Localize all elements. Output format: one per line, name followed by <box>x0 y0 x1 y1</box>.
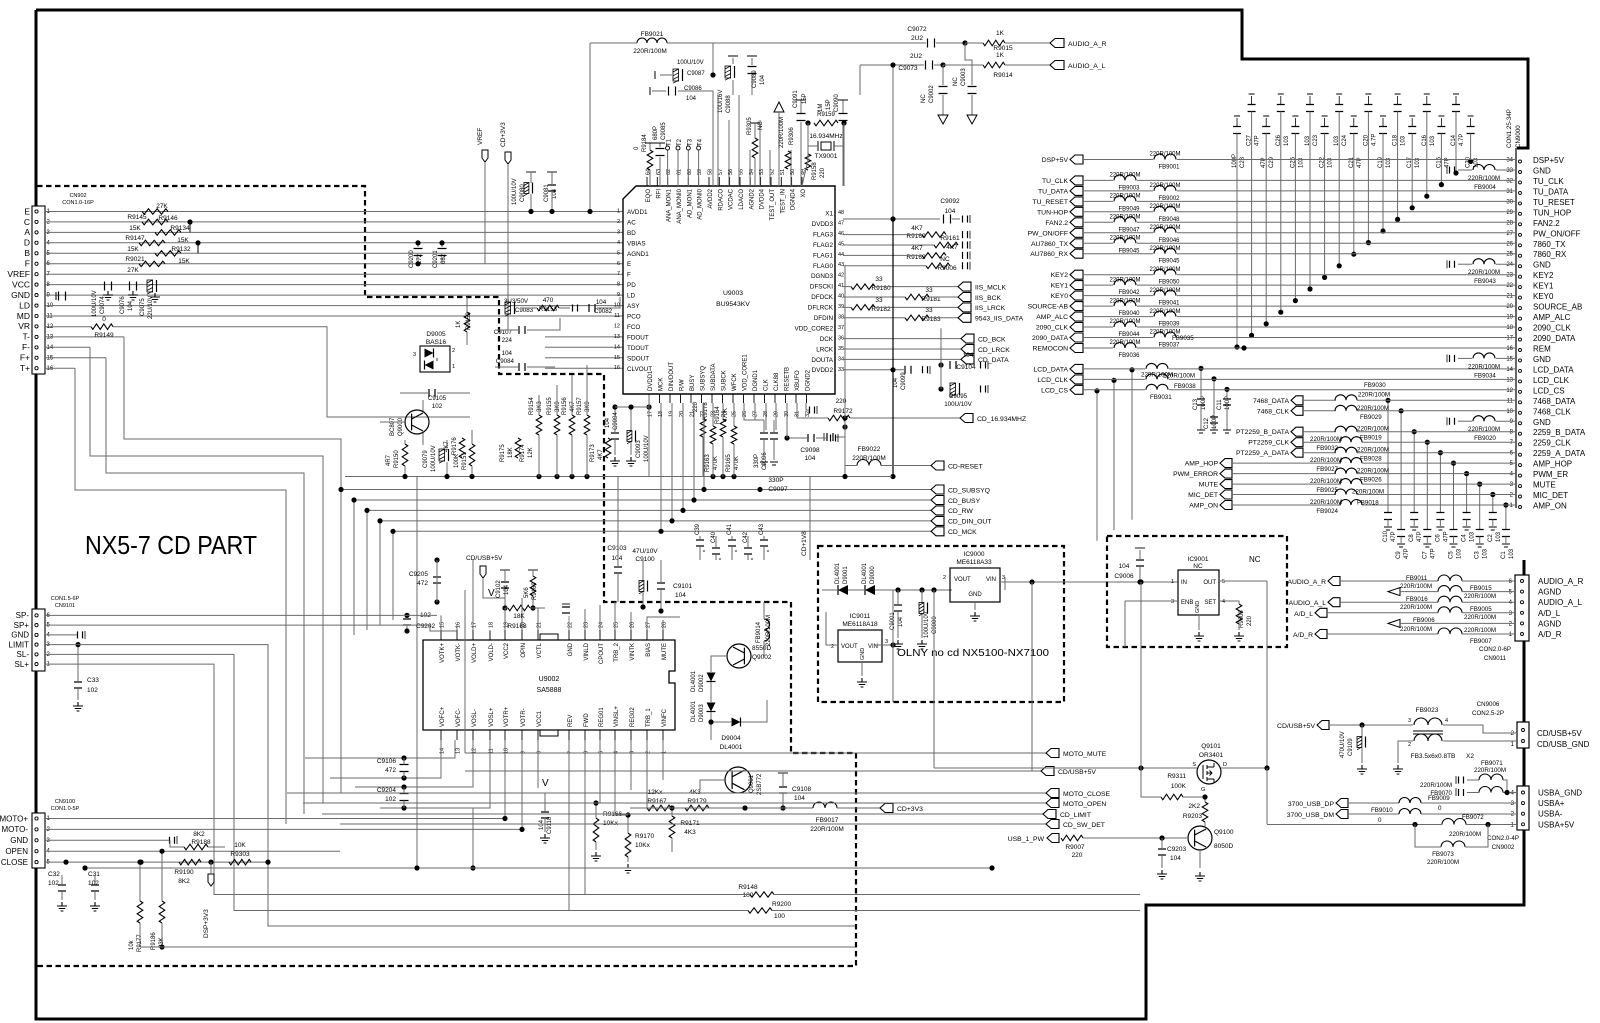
U9002 pin 19 VCC2 <box>504 630 506 640</box>
svg-text:FB9071: FB9071 <box>1481 760 1503 767</box>
svg-text:220R/100M: 220R/100M <box>810 826 844 833</box>
svg-text:C9089: C9089 <box>752 70 758 88</box>
svg-text:220R/100M: 220R/100M <box>633 48 667 55</box>
capacitor C18 <box>1397 96 1399 105</box>
U9003 pin 53 DVDD4 <box>760 177 762 186</box>
capacitor C30 <box>1470 118 1472 127</box>
svg-text:6: 6 <box>584 751 590 754</box>
net flag MOTO_CLOSE <box>287 792 1046 794</box>
long ground rail below U9002 <box>85 867 992 869</box>
svg-text:C43: C43 <box>759 523 765 535</box>
ground triangle for C9003 <box>967 115 977 124</box>
wire SL+ staircase <box>45 664 750 894</box>
svg-text:TX9001: TX9001 <box>815 153 838 160</box>
svg-text:100: 100 <box>774 913 785 920</box>
svg-text:SOURCE_AB: SOURCE_AB <box>1533 303 1582 312</box>
svg-text:R9157: R9157 <box>577 397 583 415</box>
svg-text:472: 472 <box>385 767 396 774</box>
svg-text:25: 25 <box>1506 252 1513 258</box>
svg-text:CD_BUSY: CD_BUSY <box>948 498 981 505</box>
svg-text:220R/100M: 220R/100M <box>1109 215 1140 221</box>
svg-text:GND: GND <box>1195 601 1201 613</box>
svg-text:14: 14 <box>1506 367 1513 373</box>
net flag IIS_MCLK <box>958 282 971 291</box>
svg-text:V: V <box>542 778 549 789</box>
svg-text:DL4001: DL4001 <box>862 562 868 584</box>
svg-text:ASY: ASY <box>627 303 640 310</box>
svg-text:R9303: R9303 <box>230 851 250 858</box>
svg-text:103: 103 <box>1470 531 1476 542</box>
svg-text:D: D <box>1223 762 1227 768</box>
svg-text:VOLD+: VOLD+ <box>472 643 478 663</box>
U9003 pin 59 AD_MONI0 <box>698 177 700 186</box>
CN902 pin 3 A <box>35 231 38 234</box>
svg-text:MD: MD <box>17 311 30 321</box>
U9002 pin 6 FWD <box>584 730 586 740</box>
ferrite FB9017 220R/100M <box>813 802 837 808</box>
svg-text:CLK: CLK <box>764 379 770 391</box>
U9003 pin 23 SUBDATA <box>711 394 713 403</box>
wire CLOSE row <box>45 861 268 863</box>
U9003 pin 22 SUBSYQ <box>701 394 703 403</box>
svg-text:47P: 47P <box>1430 548 1436 559</box>
svg-text:R9190: R9190 <box>174 869 194 876</box>
svg-text:R9007: R9007 <box>1065 844 1085 851</box>
svg-text:CON1.25-34P: CON1.25-34P <box>1506 109 1513 148</box>
resistor R9160 4K7 <box>922 232 946 238</box>
svg-text:MOTO_OPEN: MOTO_OPEN <box>1063 801 1106 808</box>
svg-text:FB9007: FB9007 <box>1470 638 1492 645</box>
svg-text:TUN_HOP: TUN_HOP <box>1533 208 1571 217</box>
svg-text:C7: C7 <box>1422 551 1428 559</box>
wire SP+ row jog <box>45 625 457 631</box>
ferrite FB9048 220R/100M <box>1154 206 1176 211</box>
svg-text:IIS_LRCK: IIS_LRCK <box>975 305 1006 312</box>
svg-text:103: 103 <box>1496 531 1502 542</box>
svg-text:R9165: R9165 <box>726 454 732 472</box>
svg-text:47P: 47P <box>1417 531 1423 542</box>
svg-text:NC: NC <box>940 256 950 263</box>
svg-text:220R/100M: 220R/100M <box>1400 583 1432 590</box>
svg-text:7860_TX: 7860_TX <box>1533 240 1566 249</box>
svg-text:15: 15 <box>1506 356 1513 362</box>
svg-text:23: 23 <box>584 622 590 628</box>
svg-text:T4: T4 <box>698 138 704 146</box>
CN902 pin 10 LD <box>35 304 38 307</box>
svg-text:CN9100: CN9100 <box>55 799 75 805</box>
capacitor C9098 104 <box>808 434 814 442</box>
svg-text:37: 37 <box>838 325 844 331</box>
svg-text:FB9024: FB9024 <box>1316 508 1338 515</box>
GND row pin 15 FB9034 <box>1450 355 1455 362</box>
svg-text:104: 104 <box>552 188 558 199</box>
svg-text:220R/100M: 220R/100M <box>852 455 886 462</box>
svg-text:MIC_DET: MIC_DET <box>1533 491 1568 500</box>
svg-text:A/D_R: A/D_R <box>1538 630 1562 639</box>
svg-text:4: 4 <box>617 240 620 246</box>
U9003 pin 58 AVDD2 <box>708 177 710 186</box>
svg-text:VREF: VREF <box>477 128 484 145</box>
svg-text:R9021: R9021 <box>125 256 145 263</box>
svg-text:10k: 10k <box>129 939 135 950</box>
svg-text:224: 224 <box>502 337 513 344</box>
svg-text:R9149: R9149 <box>94 332 114 339</box>
svg-text:AVDD2: AVDD2 <box>708 188 714 208</box>
transistor Q9100 8050D <box>1188 826 1212 850</box>
svg-text:R9175: R9175 <box>500 444 506 462</box>
svg-text:X2: X2 <box>1466 753 1474 760</box>
main ground rail <box>345 476 892 478</box>
svg-text:AMP_ALC: AMP_ALC <box>1533 313 1571 322</box>
svg-text:47P: 47P <box>1404 548 1410 559</box>
svg-text:C9103: C9103 <box>607 545 627 552</box>
capacitor C9095 100U/10V polarized <box>950 383 956 395</box>
resistor R9132 15K <box>155 251 181 257</box>
resistor R9147 15K <box>139 240 165 246</box>
svg-text:220R/100M: 220R/100M <box>1427 859 1459 866</box>
U9003 pin 18 MCK <box>659 394 661 403</box>
svg-text:3700_USB_DP: 3700_USB_DP <box>1288 801 1335 808</box>
svg-text:102: 102 <box>87 687 98 694</box>
capacitor C14 <box>1455 96 1457 105</box>
svg-text:DGND1: DGND1 <box>753 369 759 391</box>
svg-text:VOFC-: VOFC- <box>456 708 462 727</box>
ground symbols under decoupling caps <box>103 291 113 300</box>
svg-text:KEY2: KEY2 <box>1533 271 1554 280</box>
wire main row to FB9017 <box>630 807 813 809</box>
svg-text:R9134: R9134 <box>170 225 190 232</box>
svg-text:18K: 18K <box>508 447 514 458</box>
U9002 pin 28 MUTE <box>662 630 664 640</box>
svg-text:R9155: R9155 <box>547 397 553 415</box>
svg-text:FB9026: FB9026 <box>1360 477 1382 484</box>
svg-text:FB9019: FB9019 <box>1360 435 1382 442</box>
svg-text:10K: 10K <box>234 842 246 849</box>
U9003 pin 31 XBUFO <box>795 394 797 403</box>
svg-text:TEST_OUT: TEST_OUT <box>770 189 776 221</box>
svg-text:2U2: 2U2 <box>910 53 922 60</box>
svg-text:103: 103 <box>1386 157 1392 168</box>
CN9101 pin 4 GND <box>35 633 38 636</box>
svg-text:R9156: R9156 <box>562 397 568 415</box>
svg-text:LCD_CS: LCD_CS <box>1041 387 1068 394</box>
U9003 pin 63 RFI <box>656 177 658 186</box>
svg-text:AC: AC <box>627 219 636 226</box>
cap on GND row cn9100 <box>170 837 175 844</box>
svg-text:8550D: 8550D <box>752 645 771 652</box>
U9002 pin 13 VOFC- <box>456 730 458 740</box>
CN902 pin 11 MD <box>35 314 38 317</box>
svg-text:IIS_BCK: IIS_BCK <box>975 295 1002 302</box>
svg-text:330P: 330P <box>768 477 783 484</box>
stair wire bundle from CN902 pins 13-16 <box>124 337 341 793</box>
dashed box OLNY no cd NX5100-NX7100 <box>818 546 1064 702</box>
svg-text:AUDIO_A_R: AUDIO_A_R <box>1068 41 1107 48</box>
svg-text:15K: 15K <box>129 225 141 232</box>
svg-text:T-: T- <box>22 332 30 342</box>
svg-text:24: 24 <box>599 622 605 628</box>
net flag CD_DATA <box>843 358 961 360</box>
svg-text:17: 17 <box>648 411 654 417</box>
svg-text:2: 2 <box>617 219 620 225</box>
svg-text:REG01: REG01 <box>599 707 605 727</box>
svg-text:R9188: R9188 <box>191 839 211 846</box>
svg-text:27: 27 <box>1506 231 1513 237</box>
svg-text:R9148: R9148 <box>738 884 758 891</box>
svg-text:220R/100M: 220R/100M <box>1149 225 1180 231</box>
wire SL- staircase <box>45 654 748 910</box>
svg-text:1K: 1K <box>996 52 1005 59</box>
wire LIMIT row staircase <box>45 645 855 926</box>
svg-text:KEY0: KEY0 <box>1533 292 1554 301</box>
svg-text:2090_DATA: 2090_DATA <box>1032 335 1068 342</box>
svg-text:C9095: C9095 <box>949 393 968 400</box>
svg-text:100U/10V: 100U/10V <box>944 401 972 408</box>
net flag IIS_LRCK <box>958 303 971 312</box>
svg-text:102: 102 <box>48 880 59 887</box>
svg-text:OPEN: OPEN <box>5 847 28 856</box>
cap on GND row <box>78 631 83 638</box>
svg-text:CD_SW_DET: CD_SW_DET <box>1063 822 1105 829</box>
svg-text:VDD_CORE2: VDD_CORE2 <box>795 325 834 332</box>
wire SP- row <box>45 614 437 616</box>
svg-text:FB9036: FB9036 <box>1118 353 1140 359</box>
ferrite FB9039 220R/100M <box>1154 311 1176 316</box>
capacitor C27 <box>1251 96 1253 105</box>
svg-text:CD_BCK: CD_BCK <box>978 336 1006 343</box>
svg-text:USBA+5V: USBA+5V <box>1538 820 1575 829</box>
svg-text:PW_ON/OFF: PW_ON/OFF <box>1028 230 1068 237</box>
junction dot bus <box>890 474 895 479</box>
svg-text:2090_DATA: 2090_DATA <box>1533 334 1576 343</box>
svg-text:C23: C23 <box>1313 134 1319 146</box>
NC arrow symbol <box>774 102 784 112</box>
capacitor C9201 682 <box>438 249 447 256</box>
svg-text:104: 104 <box>128 300 134 311</box>
resistor R9146 27K <box>142 209 168 214</box>
svg-text:3: 3 <box>1408 718 1411 724</box>
svg-text:47P: 47P <box>1391 531 1397 542</box>
svg-text:C: C <box>24 217 30 227</box>
svg-text:A/D_R: A/D_R <box>1293 632 1313 639</box>
svg-text:GND: GND <box>11 290 30 300</box>
svg-text:D9003: D9003 <box>699 704 705 722</box>
bottom rail y947 <box>139 923 141 947</box>
svg-text:470: 470 <box>543 297 554 304</box>
connector CN9002 CON2.0-4P <box>1517 786 1529 830</box>
svg-text:20: 20 <box>1506 304 1513 310</box>
svg-text:R9200: R9200 <box>772 901 792 908</box>
svg-text:VOSL-: VOSL- <box>472 709 478 727</box>
CN902 pin 12 VR <box>35 325 38 328</box>
U9002 pin 2 TRB_1 <box>646 730 648 740</box>
svg-text:3K9: 3K9 <box>555 401 561 412</box>
svg-text:PCO: PCO <box>627 314 641 321</box>
svg-text:C41: C41 <box>727 523 733 535</box>
svg-text:C3: C3 <box>1475 551 1481 559</box>
svg-text:USBA+: USBA+ <box>1538 799 1565 808</box>
svg-text:PT2259_B_DATA: PT2259_B_DATA <box>1236 429 1289 436</box>
resistor R9168 18K <box>508 605 530 611</box>
svg-text:26: 26 <box>630 622 636 628</box>
CN902 pin 1 E <box>35 210 38 213</box>
U9003 pin 28 CLK <box>764 394 766 403</box>
capacitor C15 <box>1440 118 1442 127</box>
svg-text:C9106: C9106 <box>377 758 397 765</box>
capacitor C28 <box>1236 118 1238 127</box>
svg-text:VOTK-: VOTK- <box>456 643 462 661</box>
svg-text:FB9022: FB9022 <box>858 446 881 453</box>
capacitor C8 47P <box>1413 432 1415 513</box>
ferrite FB9045 220R/100M <box>1154 248 1176 253</box>
svg-text:U9002: U9002 <box>539 676 560 683</box>
svg-text:2U2: 2U2 <box>911 35 923 42</box>
svg-text:C9000: C9000 <box>932 616 938 634</box>
svg-text:104: 104 <box>945 208 956 215</box>
svg-text:VOLD-: VOLD- <box>489 643 495 661</box>
crystal wiring <box>808 123 818 146</box>
svg-text:8K2: 8K2 <box>193 831 205 838</box>
svg-text:R9150: R9150 <box>394 450 400 468</box>
svg-text:ME6118A18: ME6118A18 <box>842 621 878 628</box>
svg-text:7468_CLK: 7468_CLK <box>1533 407 1571 416</box>
svg-text:3: 3 <box>1171 599 1174 605</box>
svg-text:KEY0: KEY0 <box>1051 293 1069 300</box>
svg-text:7860_RX: 7860_RX <box>1533 250 1567 259</box>
svg-text:VINFC: VINFC <box>662 708 668 727</box>
svg-text:CN9101: CN9101 <box>55 603 75 609</box>
svg-text:DSP+3V3: DSP+3V3 <box>203 909 210 938</box>
capacitor C22 <box>1324 118 1326 127</box>
svg-text:C9094: C9094 <box>613 412 619 430</box>
svg-text:GND: GND <box>1533 418 1551 427</box>
svg-text:B: B <box>24 248 30 258</box>
resistor R9183 33 <box>905 315 929 321</box>
svg-text:FLAG3: FLAG3 <box>813 231 833 238</box>
svg-text:C9074: C9074 <box>100 296 106 314</box>
svg-text:8K2: 8K2 <box>178 878 190 885</box>
svg-text:R9014: R9014 <box>993 72 1013 79</box>
svg-text:BD: BD <box>627 230 636 237</box>
net flag AUDIO_A_R <box>1050 39 1064 48</box>
svg-text:C9105: C9105 <box>428 395 447 402</box>
CN902 pin 2 C <box>35 220 38 223</box>
svg-text:220R/100M: 220R/100M <box>1149 183 1180 189</box>
wire MOTO+ row <box>45 818 505 820</box>
svg-text:14: 14 <box>614 344 620 350</box>
svg-text:16.934MHz: 16.934MHz <box>809 133 842 140</box>
svg-text:26: 26 <box>1506 241 1513 247</box>
svg-text:16: 16 <box>47 366 54 372</box>
svg-text:CON1.0-16P: CON1.0-16P <box>62 200 94 206</box>
svg-text:FB9028: FB9028 <box>1360 456 1382 463</box>
svg-text:27K: 27K <box>127 267 139 274</box>
svg-text:220R/100M: 220R/100M <box>1464 593 1496 600</box>
svg-text:103: 103 <box>1415 157 1421 168</box>
svg-text:CD+3V3: CD+3V3 <box>897 806 923 813</box>
svg-text:FAN2.2: FAN2.2 <box>1533 219 1560 228</box>
capacitor C20 <box>1367 96 1369 105</box>
cap near GND pin 22 <box>562 607 570 613</box>
T- F- F+ T+ staircase wires <box>45 336 124 338</box>
svg-text:SUBCK: SUBCK <box>722 370 728 391</box>
svg-text:DFDCK: DFDCK <box>811 294 833 301</box>
capacitor C9076 104 <box>130 282 137 291</box>
svg-text:AMP_HOP: AMP_HOP <box>1533 460 1572 469</box>
ferrite FB9046 220R/100M <box>1154 227 1176 233</box>
svg-text:R/W: R/W <box>680 379 686 391</box>
svg-text:C9201: C9201 <box>433 250 439 268</box>
svg-text:CLK88: CLK88 <box>774 372 780 391</box>
svg-text:IC9001: IC9001 <box>1188 556 1209 563</box>
svg-text:NC: NC <box>953 77 959 86</box>
svg-text:4K7: 4K7 <box>911 225 923 232</box>
wires from U9002 top pins up <box>440 615 442 630</box>
svg-text:AUDIO_A_R: AUDIO_A_R <box>1287 579 1326 586</box>
svg-text:LRCK: LRCK <box>816 346 834 353</box>
wire MOTO- row <box>45 828 522 830</box>
svg-text:TDOUT: TDOUT <box>627 345 649 352</box>
pin 32 cap <box>810 407 815 414</box>
U9002 pin 15 VOTK+ <box>440 630 442 640</box>
svg-text:C9092: C9092 <box>940 198 960 205</box>
pin 8 VCC1 to V rail <box>537 740 539 788</box>
svg-text:220R/100M: 220R/100M <box>1400 604 1432 611</box>
ferrite FB9003 220R/100M <box>1114 175 1136 181</box>
svg-text:VINLD: VINLD <box>584 642 590 660</box>
svg-text:2: 2 <box>646 751 652 754</box>
svg-text:DGND3: DGND3 <box>811 273 834 280</box>
CN9100 pin 3 GND <box>35 839 38 842</box>
ferrite FB9047 220R/100M <box>1114 217 1136 223</box>
svg-text:6: 6 <box>617 261 620 267</box>
capacitor C9200 272 <box>414 249 423 256</box>
svg-text:SL+: SL+ <box>15 660 30 669</box>
svg-text:MUTE: MUTE <box>1533 481 1556 490</box>
svg-text:TU_CLK: TU_CLK <box>1042 178 1069 185</box>
svg-text:220R/100M: 220R/100M <box>1464 614 1496 621</box>
svg-text:C9093: C9093 <box>636 440 642 458</box>
svg-text:103: 103 <box>1284 135 1290 146</box>
svg-text:220R/100M: 220R/100M <box>1310 436 1342 443</box>
svg-text:TU_CLK: TU_CLK <box>1533 177 1564 186</box>
svg-text:104: 104 <box>686 96 697 102</box>
svg-text:46: 46 <box>838 231 844 237</box>
svg-text:LCD_CS: LCD_CS <box>1533 386 1565 395</box>
ferrite FB9002 220R/100M <box>1154 185 1176 191</box>
svg-text:USBA_GND: USBA_GND <box>1538 789 1582 798</box>
svg-text:FB9043: FB9043 <box>1474 278 1496 285</box>
svg-text:33: 33 <box>875 297 883 304</box>
CN9100 pin 1 MOTO+ <box>35 817 38 820</box>
U9002 pin 23 VINLD <box>584 630 586 640</box>
svg-text:GND: GND <box>568 642 574 656</box>
capacitor C17 <box>1411 118 1413 127</box>
svg-text:7: 7 <box>568 751 574 754</box>
U9003 pin 50 DGND4 <box>791 177 793 186</box>
cap on bus at left <box>827 433 833 441</box>
svg-text:GND: GND <box>1533 261 1551 270</box>
svg-text:220R/100M: 220R/100M <box>1109 173 1140 179</box>
svg-text:LD: LD <box>627 293 636 300</box>
svg-text:220R/100M: 220R/100M <box>1468 175 1500 182</box>
svg-text:102: 102 <box>432 403 443 410</box>
resistor R9159 1M <box>814 120 838 126</box>
svg-text:FCO: FCO <box>627 324 640 331</box>
svg-text:D9001: D9001 <box>843 566 849 584</box>
svg-text:7: 7 <box>617 271 620 277</box>
svg-text:R9173: R9173 <box>590 444 596 462</box>
